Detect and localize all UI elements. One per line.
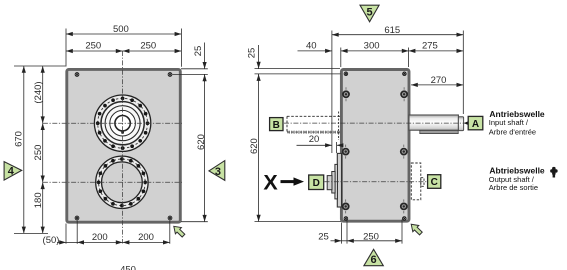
D side output shaft stub (327, 176, 332, 190)
svg-text:250: 250 (140, 41, 156, 52)
position triangle 3 (209, 161, 225, 181)
X arrow (281, 177, 305, 185)
extension line body right x408.6 (408, 48, 410, 68)
input shaft A end section (458, 117, 463, 131)
dim 25 span (342, 240, 348, 242)
svg-text:A: A (472, 119, 479, 130)
svg-text:Arbre de sortie: Arbre de sortie (489, 183, 538, 192)
flange bolt holes (16x) (96, 96, 149, 149)
dim line 250 bottom (347, 240, 402, 242)
D side output flange step 1 (337, 153, 341, 207)
extension line 620 bottom (255, 221, 342, 223)
extension line x336.4 (336, 142, 338, 153)
svg-text:25: 25 (247, 48, 258, 59)
svg-text:4: 4 (8, 166, 15, 178)
dim line 500 (66, 33, 181, 35)
extension line body left x340.8 (340, 48, 342, 68)
horizontal centerline input axis (43, 122, 182, 124)
svg-text:250: 250 (363, 231, 379, 242)
svg-text:200: 200 (138, 232, 154, 243)
svg-text:6: 6 (371, 254, 377, 266)
extension line right y221.7 (181, 221, 208, 223)
position triangle 4 (4, 162, 22, 181)
dim 25 right view upper arrow (258, 45, 260, 69)
dim line 275 (409, 50, 464, 52)
dim line 250 vertical (42, 123, 44, 182)
dimension labels left view (14, 24, 207, 270)
shaft side label A (468, 116, 483, 129)
svg-text:450: 450 (120, 265, 136, 270)
dim 25 right view lower arrow (258, 74, 260, 81)
dimension labels right view (247, 25, 447, 242)
vertical centerline (122, 51, 124, 244)
svg-text:300: 300 (364, 41, 380, 52)
hex bolts (6x) (342, 87, 408, 213)
corner screw bottom-left (344, 217, 348, 221)
corner screw top-right (403, 72, 407, 76)
output shaft text block (489, 166, 545, 193)
svg-text:C: C (431, 177, 438, 188)
dim 25 upper arrow (204, 43, 206, 69)
svg-text:615: 615 (384, 25, 400, 36)
dim (50) outside arrow (57, 241, 66, 243)
position triangle 6 (364, 249, 383, 266)
dim 20 leader and arrow (297, 144, 332, 146)
shaft side label C (428, 175, 441, 189)
dim line 200 left (77, 241, 122, 243)
corner screw bottom-right (168, 216, 172, 220)
svg-text:D: D (313, 178, 320, 189)
svg-text:Input shaft /: Input shaft / (489, 118, 529, 127)
svg-text:500: 500 (113, 24, 129, 35)
extension line right y74.4 from screw (173, 73, 208, 75)
svg-text:X: X (263, 171, 278, 195)
dim line 670 (23, 66, 25, 233)
extension line 620 top (255, 68, 341, 70)
gearbox housing front view body (67, 69, 181, 222)
output axis centerline (325, 181, 428, 183)
dim 25 outside arrow (331, 240, 342, 242)
corner screw top-right (168, 73, 172, 77)
dim line 250 right (123, 50, 182, 52)
cross symbol after Abtriebswelle (550, 167, 557, 178)
bottom extension lines (65, 224, 67, 244)
dim line 250 left (66, 50, 123, 52)
extension line y66 left (14, 65, 66, 67)
shaft side label B (270, 118, 283, 131)
dim 25 lower arrow (204, 74, 206, 82)
svg-text:B: B (273, 120, 280, 131)
dim line 300 (341, 50, 409, 52)
dim line 620 right view (258, 74, 260, 221)
svg-text:250: 250 (85, 41, 101, 52)
extension line top-right (180, 29, 182, 67)
svg-text:3: 3 (215, 166, 221, 178)
svg-text:40: 40 (306, 41, 317, 52)
output shaft flange (bottom circle group) (96, 156, 148, 208)
input shaft A cylinder (409, 115, 458, 130)
dim line (240) (42, 66, 44, 123)
dim 40 outside arrow (298, 50, 332, 52)
extension line y233.4 left (14, 232, 48, 234)
svg-text:250: 250 (33, 145, 44, 161)
gearbox housing side view body (341, 70, 409, 222)
dim line 200 right (123, 241, 170, 243)
input shaft flange (top circle group) (94, 95, 150, 151)
horizontal centerline output axis (43, 181, 182, 183)
hidden output shaft C (dashed) (411, 163, 424, 200)
hidden shaft B hatching (288, 131, 339, 134)
extension line shaft end x463.3 (462, 31, 464, 115)
hidden input shaft option B (dashed) (287, 116, 341, 132)
corner screw bottom-right (403, 217, 407, 221)
hidden bearing face line (338, 112, 340, 141)
svg-text:5: 5 (366, 6, 372, 18)
svg-text:200: 200 (92, 232, 108, 243)
extension line y73.9 from screw row (255, 73, 341, 75)
input shaft A shoulder (420, 130, 458, 133)
svg-text:Arbre d'entrée: Arbre d'entrée (489, 127, 536, 136)
position triangle 5 (360, 5, 379, 22)
input axis centerline (284, 122, 468, 124)
svg-text:(50): (50) (43, 235, 60, 246)
bottom extension lines (341, 223, 343, 244)
flange bolt holes (16x) (97, 157, 147, 207)
green cursor arrow right view (411, 224, 422, 235)
green cursor arrow left view (174, 226, 185, 237)
extension line shaft stub face x331.9 (331, 31, 333, 154)
extension line top-left (65, 29, 67, 67)
extension line right y68.8 (181, 68, 208, 70)
D side output flange step 3 (332, 172, 335, 194)
svg-text:25: 25 (318, 231, 329, 242)
svg-text:(240): (240) (33, 81, 44, 103)
svg-text:670: 670 (14, 131, 25, 147)
dim line 270 (411, 84, 463, 86)
corner screw bottom-left (75, 216, 79, 220)
shaft side label D (309, 175, 324, 190)
dim (50) span (66, 241, 77, 243)
svg-text:20: 20 (309, 134, 320, 145)
dim line 620 left view (204, 74, 206, 221)
dim 20 right outside arrow (337, 144, 342, 146)
pointer to shaft A (464, 121, 468, 125)
dim line 615 (332, 34, 463, 36)
corner screw top-left (344, 72, 348, 76)
svg-text:25: 25 (193, 46, 204, 57)
svg-text:620: 620 (196, 134, 207, 150)
svg-text:275: 275 (422, 41, 438, 52)
corner screw top-left (75, 73, 79, 77)
svg-text:270: 270 (431, 75, 447, 86)
svg-text:620: 620 (249, 138, 260, 154)
D side output flange step 2 (335, 164, 338, 199)
input shaft text block (489, 109, 545, 136)
dim line 180 (42, 182, 44, 233)
svg-text:180: 180 (33, 192, 44, 208)
keyway (121, 130, 124, 134)
